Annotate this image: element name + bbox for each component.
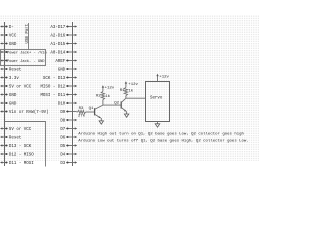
resistor R3	[78, 110, 86, 113]
left bus rail	[4, 22, 6, 166]
pin D4 (right row 16)	[60, 153, 77, 158]
svg-text:Power Jack- - GND: Power Jack- - GND	[7, 59, 45, 64]
svg-text:1k: 1k	[128, 88, 133, 93]
svg-text:3.3v: 3.3v	[9, 77, 19, 81]
+12v supply at R2	[102, 85, 115, 91]
wire R1 bottom to Q2 collector node	[125, 96, 127, 99]
svg-text:27k: 27k	[78, 113, 86, 118]
pin SCK - D13 (right row 7)	[43, 76, 77, 81]
resistor R2	[101, 91, 104, 99]
pin A2-D16 (right row 2)	[50, 34, 77, 39]
Power Jack box	[1, 50, 46, 66]
svg-text:GND: GND	[9, 94, 17, 98]
pin D12 - MISO (left row 16)	[0, 153, 34, 158]
+12v supply at R1	[125, 81, 139, 87]
pin AREF (right row 5)	[55, 59, 77, 64]
svg-text:D4: D4	[60, 154, 65, 158]
pin Power Jack- - GND (left row 5)	[0, 59, 45, 64]
svg-text:SCK - D13: SCK - D13	[43, 77, 66, 81]
svg-text:R2: R2	[96, 95, 101, 99]
wire Q2 emitter to ground	[126, 111, 128, 114]
svg-text:GND: GND	[58, 69, 66, 73]
svg-text:D8: D8	[60, 120, 65, 124]
pin GND (left row 10)	[0, 102, 17, 107]
wire Q1 collector to Q2 base (node)	[103, 104, 121, 106]
svg-text:D9: D9	[60, 111, 65, 115]
svg-text:MOSI - D11: MOSI - D11	[40, 94, 65, 98]
pin VCC (left row 2)	[0, 34, 17, 39]
svg-text:AREF: AREF	[55, 60, 65, 64]
right bus rail	[72, 22, 74, 166]
svg-text:D12 - MISO: D12 - MISO	[9, 154, 34, 158]
pin Power Jack+ - /Vin (left row 4)	[0, 51, 47, 56]
svg-text:Power Jack+ - /Vin: Power Jack+ - /Vin	[7, 51, 47, 56]
svg-text:MISO - D12: MISO - D12	[40, 86, 65, 90]
pin D9 (right row 11)	[60, 110, 76, 115]
pin D10 (right row 10)	[58, 102, 77, 107]
pin D7 (right row 13)	[60, 127, 77, 132]
svg-text:D10: D10	[58, 103, 66, 107]
svg-text:GND: GND	[9, 103, 17, 107]
dotted grid background (decorative)	[0, 15, 259, 161]
svg-text:Q1: Q1	[89, 107, 94, 111]
transistor Q2	[121, 98, 126, 111]
svg-text:D7: D7	[60, 128, 65, 132]
transistor Q1	[95, 105, 103, 118]
wire Q1 emitter to ground	[100, 118, 102, 121]
svg-text:D11 - MOSI: D11 - MOSI	[9, 162, 34, 166]
svg-text:+12v: +12v	[159, 76, 169, 80]
svg-text:Q2: Q2	[114, 102, 119, 106]
svg-text:5V or VCC: 5V or VCC	[9, 85, 32, 90]
USB section divider line	[28, 23, 30, 50]
svg-text:A1-D15: A1-D15	[50, 43, 65, 47]
svg-text:D5: D5	[60, 145, 65, 149]
pin MISO - D12 (right row 8)	[40, 85, 77, 90]
svg-text:GND: GND	[9, 43, 17, 47]
pin Reset (left row 6)	[0, 68, 22, 73]
svg-text:1k: 1k	[105, 94, 110, 99]
svg-text:A0-D14: A0-D14	[50, 52, 65, 56]
pin GND (left row 3)	[0, 42, 17, 47]
pin A3-D17 (right row 1)	[50, 25, 77, 30]
pin 3.3v (left row 7)	[0, 76, 19, 81]
svg-text:+12v: +12v	[105, 86, 115, 90]
svg-text:+12v: +12v	[128, 83, 138, 87]
svg-text:R3: R3	[79, 107, 84, 111]
wire R3 to Q1 base	[86, 111, 95, 113]
pin D11 - MOSI (left row 17)	[0, 161, 34, 166]
pin Vin or RAW(7-9V) (left row 11)	[0, 110, 48, 115]
wire R2 bottom to node	[102, 100, 104, 106]
pin D5 (right row 15)	[60, 144, 77, 149]
pin D13 - SCK (left row 15)	[0, 144, 32, 149]
pin D6 (right row 14)	[60, 136, 77, 141]
svg-text:D-: D-	[9, 26, 14, 30]
bottom header box	[5, 122, 46, 167]
ground at Q1 emitter	[99, 121, 103, 124]
svg-text:VCC: VCC	[9, 35, 17, 39]
pin Reset (left row 14)	[0, 136, 22, 141]
servo box	[146, 82, 170, 122]
svg-text:Reset: Reset	[9, 69, 22, 73]
svg-text:Servo: Servo	[150, 97, 163, 101]
pin D3 (right row 17)	[60, 161, 77, 166]
wire servo to ground	[157, 122, 159, 124]
svg-text:Vin or RAW(7-9V): Vin or RAW(7-9V)	[9, 110, 49, 115]
svg-text:A2-D16: A2-D16	[50, 35, 65, 39]
ground at servo	[155, 124, 160, 127]
svg-text:USB Port: USB Port	[26, 23, 30, 43]
pin D8 (right row 12)	[60, 119, 77, 124]
wire Q2 collector to servo input	[126, 97, 145, 99]
pin A1-D15 (right row 3)	[50, 42, 77, 47]
wire D9 to R3	[77, 111, 78, 113]
svg-text:Reset: Reset	[9, 137, 22, 141]
pin MOSI - D11 (right row 9)	[40, 93, 77, 98]
pin 5V or VCC (left row 8)	[0, 85, 32, 90]
svg-text:D6: D6	[60, 137, 65, 141]
svg-text:D3: D3	[60, 162, 65, 166]
pin GND (right row 6)	[58, 68, 77, 73]
svg-text:D13 - SCK: D13 - SCK	[9, 145, 32, 149]
resistor R1	[124, 87, 127, 95]
svg-text:5V or VCC: 5V or VCC	[9, 127, 32, 132]
pin D- (left row 1)	[0, 25, 14, 30]
+12v supply at servo	[156, 74, 169, 82]
ground at Q2 emitter	[124, 114, 128, 117]
pin 5V or VCC (left row 13)	[0, 127, 32, 132]
svg-text:R1: R1	[120, 89, 125, 93]
svg-text:Arduino Low out turns off Q1,: Arduino Low out turns off Q1, Q2 base go…	[78, 139, 248, 144]
svg-text:Arduino High out turn on Q1, Q: Arduino High out turn on Q1, Q2 base goe…	[78, 131, 244, 136]
pin A0-D14 (right row 4)	[50, 51, 77, 56]
svg-text:A3-D17: A3-D17	[50, 26, 65, 30]
pin GND (left row 9)	[0, 93, 17, 98]
